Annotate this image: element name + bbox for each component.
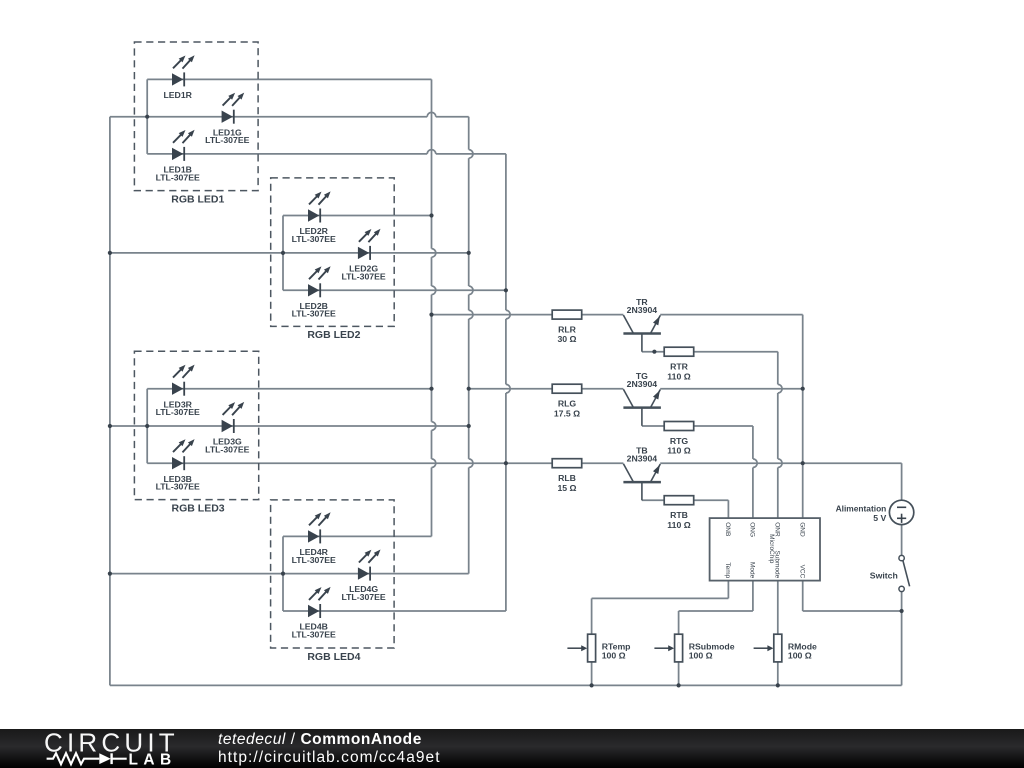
wire: TR emitter rail	[660, 314, 803, 316]
wire: ONG pin drop	[753, 426, 757, 518]
svg-text:LTL-307EE: LTL-307EE	[156, 482, 200, 492]
wire: source top	[901, 463, 903, 500]
wire: switch to rail	[901, 592, 903, 686]
CircuitLab logo text CIRCUIT	[44, 727, 179, 757]
wire: TB collector to RTB	[642, 499, 664, 501]
footer title tetedecul / CommonAnode	[218, 731, 422, 748]
wire: green cathode bus	[469, 117, 473, 574]
wire: red rail to RLR	[432, 314, 553, 316]
wire: RGB LED3 anode bus	[146, 389, 148, 464]
transistor TB 2N3904	[623, 446, 661, 501]
junction dot	[108, 572, 112, 576]
svg-text:RLB: RLB	[558, 473, 576, 483]
wire: LED2G row / group2 feed	[110, 252, 469, 254]
CircuitLab logo text LAB	[129, 752, 177, 768]
junction dot	[801, 387, 805, 391]
transistor TR 2N3904	[623, 297, 661, 352]
switch Switch	[870, 555, 910, 591]
svg-text:100 Ω: 100 Ω	[602, 651, 626, 661]
junction dot	[467, 387, 471, 391]
svg-text:RGB LED4: RGB LED4	[307, 651, 360, 663]
wire: Mode pin to RSubmode	[679, 581, 753, 635]
svg-text:2N3904: 2N3904	[627, 379, 658, 389]
svg-text:LTL-307EE: LTL-307EE	[341, 592, 385, 602]
svg-text:VCC: VCC	[799, 565, 806, 579]
potentiometer RSubmode 100 ohm	[654, 634, 734, 662]
CircuitLab logo resistor-diode symbol	[47, 753, 127, 764]
LED LED4B LTL-307EE	[292, 587, 336, 640]
svg-text:LTL-307EE: LTL-307EE	[205, 135, 249, 145]
svg-text:30 Ω: 30 Ω	[557, 334, 576, 344]
junction dot	[504, 461, 508, 465]
svg-text:LTL-307EE: LTL-307EE	[292, 309, 336, 319]
svg-text:5 V: 5 V	[873, 513, 886, 523]
wire: RTR to ONR pin	[694, 351, 778, 353]
resistor RTR	[664, 347, 694, 381]
chip MicroChip	[710, 518, 820, 581]
junction dot	[467, 424, 471, 428]
svg-text:tetedecul / CommonAnode: tetedecul / CommonAnode	[218, 731, 422, 748]
svg-text:ONG: ONG	[749, 522, 756, 537]
wire: RGB LED2 anode bus	[282, 216, 284, 291]
wire: TG collector to RTG	[642, 425, 664, 427]
svg-text:ONB: ONB	[724, 522, 731, 536]
wire: LED3R row	[147, 388, 431, 390]
junction dot	[429, 213, 433, 217]
svg-text:LTL-307EE: LTL-307EE	[205, 444, 249, 454]
LED LED2G LTL-307EE	[341, 229, 385, 281]
svg-text:Alimentation: Alimentation	[836, 503, 887, 513]
potentiometer RTemp 100 ohm	[567, 634, 630, 662]
svg-text:RGB LED1: RGB LED1	[171, 193, 224, 205]
wire: TG emitter rail	[660, 388, 803, 390]
junction dot	[776, 683, 780, 687]
svg-text:LTL-307EE: LTL-307EE	[292, 555, 336, 565]
svg-text:RTB: RTB	[670, 510, 688, 520]
LED LED1G LTL-307EE	[205, 93, 249, 146]
wire: LED4G row / group4 feed	[110, 573, 469, 575]
wire: RTemp to rail	[591, 662, 593, 686]
LED LED2R LTL-307EE	[292, 191, 336, 244]
LED LED2B LTL-307EE	[292, 266, 336, 319]
wire: ONB pin drop	[727, 500, 729, 518]
junction dot	[801, 461, 805, 465]
footer url	[218, 749, 441, 766]
svg-text:RLR: RLR	[558, 325, 577, 335]
svg-text:RLG: RLG	[558, 399, 577, 409]
svg-text:2N3904: 2N3904	[627, 454, 658, 464]
svg-text:2N3904: 2N3904	[627, 305, 658, 315]
group box RGB LED3	[134, 351, 258, 514]
wire: emitter GND bus	[802, 315, 804, 518]
wire: RTG to ONG pin	[694, 425, 753, 427]
junction dot	[900, 609, 904, 613]
wire: RLG to TG base	[582, 388, 624, 390]
voltage source Alimentation 5 V	[836, 500, 914, 524]
wire: RSubmode to rail	[678, 662, 680, 686]
LED LED1B LTL-307EE	[156, 130, 200, 183]
LED LED3G LTL-307EE	[205, 402, 249, 455]
junction dot	[467, 251, 471, 255]
junction dot	[281, 572, 285, 576]
svg-text:http://circuitlab.com/cc4a9et: http://circuitlab.com/cc4a9et	[218, 749, 441, 766]
svg-text:Temp: Temp	[724, 562, 731, 578]
wire: green rail to RLG	[469, 388, 553, 390]
svg-text:LTL-307EE: LTL-307EE	[341, 271, 385, 281]
resistor RTG	[664, 422, 694, 456]
svg-text:LTL-307EE: LTL-307EE	[156, 407, 200, 417]
svg-text:110 Ω: 110 Ω	[667, 520, 690, 530]
junction dot	[108, 251, 112, 255]
wire: RMode to rail	[777, 662, 779, 686]
wire: LED1R row	[147, 78, 431, 80]
group box RGB LED2	[271, 178, 395, 341]
svg-text:17.5 Ω: 17.5 Ω	[554, 408, 580, 418]
wire: bottom return rail	[110, 684, 902, 686]
group box RGB LED1	[134, 42, 258, 205]
junction dot	[108, 424, 112, 428]
resistor RLB	[552, 459, 582, 493]
wire: LED1B row	[147, 150, 506, 154]
svg-text:110 Ω: 110 Ω	[667, 446, 690, 456]
svg-text:Switch: Switch	[870, 570, 898, 580]
wire: blue cathode bus	[506, 154, 510, 611]
svg-text:RTG: RTG	[670, 436, 689, 446]
svg-text:100 Ω: 100 Ω	[689, 651, 713, 661]
LED LED3R LTL-307EE	[156, 365, 200, 418]
svg-text:GND: GND	[799, 522, 806, 537]
resistor RLR	[552, 310, 582, 344]
junction dot	[429, 387, 433, 391]
potentiometer RMode 100 ohm	[754, 634, 817, 662]
junction dot	[504, 288, 508, 292]
wire: LED1G row / group1 feed	[110, 112, 469, 116]
wire: LED2B row	[283, 289, 506, 291]
wire: LED4R row	[283, 535, 432, 537]
svg-text:100 Ω: 100 Ω	[788, 651, 812, 661]
svg-text:Mode: Mode	[749, 562, 756, 579]
junction dot	[145, 424, 149, 428]
wire: left anode feed bus	[109, 117, 111, 686]
junction dot	[677, 683, 681, 687]
wire: ONR pin drop	[778, 352, 782, 518]
resistor RTB	[664, 496, 694, 530]
wire: RGB LED4 anode bus	[282, 536, 284, 611]
svg-text:LAB: LAB	[129, 752, 177, 768]
svg-text:MicroChip: MicroChip	[768, 534, 775, 564]
wire: LED3B row to RLB	[147, 462, 552, 464]
svg-text:LTL-307EE: LTL-307EE	[292, 234, 336, 244]
wire: TB emitter rail to source	[660, 462, 901, 464]
group box RGB LED4	[271, 500, 395, 663]
svg-text:LED1R: LED1R	[163, 90, 192, 100]
wire: Submode pin to RMode	[777, 581, 779, 635]
wire: RTB to ONB pin	[694, 499, 729, 501]
LED LED1R LTL-307EE	[163, 55, 194, 100]
wire: RGB LED1 anode bus	[146, 79, 148, 153]
wire: source to switch	[901, 525, 903, 556]
junction dot	[281, 251, 285, 255]
transistor TG 2N3904	[623, 371, 661, 426]
wire: LED3G row / group3 feed	[110, 425, 469, 427]
wire: TR collector to RTR	[642, 351, 664, 353]
wire: RLR to TR base	[582, 314, 624, 316]
svg-text:110 Ω: 110 Ω	[667, 371, 690, 381]
wire: Temp pin to RTemp	[592, 581, 729, 635]
svg-text:RTR: RTR	[670, 362, 689, 372]
svg-text:RGB LED3: RGB LED3	[172, 502, 225, 514]
svg-text:15 Ω: 15 Ω	[557, 483, 576, 493]
junction dot	[429, 313, 433, 317]
junction dot	[145, 115, 149, 119]
svg-text:LTL-307EE: LTL-307EE	[292, 629, 336, 639]
wire: VCC pin to switch	[803, 581, 902, 611]
wire: RLB to TB base	[582, 462, 624, 464]
wire: red cathode bus	[432, 79, 436, 536]
junction dot	[590, 683, 594, 687]
LED LED3B LTL-307EE	[156, 439, 200, 492]
wire: LED4B row	[283, 610, 506, 612]
svg-text:RGB LED2: RGB LED2	[307, 329, 360, 341]
junction dot	[652, 350, 656, 354]
LED LED4R LTL-307EE	[292, 512, 336, 565]
wire: LED2R row	[283, 215, 432, 217]
LED LED4G LTL-307EE	[341, 550, 385, 603]
svg-text:LTL-307EE: LTL-307EE	[156, 172, 200, 182]
resistor RLG	[552, 384, 582, 418]
